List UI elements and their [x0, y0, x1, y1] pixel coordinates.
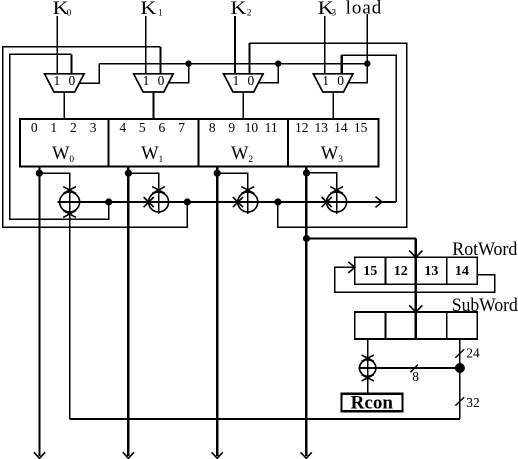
wire K2 input	[234, 16, 236, 74]
slash 32	[455, 397, 464, 405]
wire W2 to xor X2	[217, 173, 248, 192]
svg-text:1: 1	[143, 73, 150, 88]
svg-text:load: load	[346, 0, 383, 18]
wire W0 to xor X0	[39, 173, 69, 192]
wire mux1 zero-input	[159, 47, 161, 74]
junction load-mux2	[275, 60, 281, 66]
xor X3	[322, 187, 347, 215]
wire K1 input	[145, 16, 147, 74]
arrow into SubWord	[409, 305, 422, 312]
svg-text:0: 0	[31, 120, 38, 135]
RotWord cell numbers	[363, 264, 469, 279]
svg-text:0: 0	[158, 73, 165, 88]
arrow W3 out	[301, 452, 312, 458]
svg-text:2: 2	[248, 155, 253, 165]
svg-text:1: 1	[233, 73, 240, 88]
arrow into RotWord left	[348, 262, 355, 273]
label W1	[141, 144, 163, 165]
arrow W2 out	[212, 452, 223, 458]
label W0	[52, 144, 74, 165]
wire W1 output	[127, 166, 129, 456]
wire mux3 zero-input	[341, 55, 343, 74]
mux M3	[313, 73, 353, 92]
wire mux0 output	[63, 92, 65, 119]
RotWord rotate loop wire	[335, 267, 495, 292]
register W3 byte numbers	[295, 120, 368, 135]
wire X4 output to merge	[359, 367, 460, 369]
wire W0 output (to bottom arrow)	[38, 166, 40, 456]
svg-text:14: 14	[455, 264, 469, 279]
svg-text:2: 2	[247, 9, 252, 19]
svg-text:3: 3	[90, 120, 97, 135]
junction load-mux3	[364, 60, 370, 66]
register divider 1	[107, 119, 109, 166]
wire mux0 zero-input	[70, 54, 72, 74]
svg-text:Rcon: Rcon	[351, 392, 394, 413]
svg-text:32: 32	[466, 395, 480, 410]
svg-text:3: 3	[338, 155, 343, 165]
SubWord box	[355, 312, 477, 339]
svg-text:W: W	[52, 144, 70, 164]
svg-text:1: 1	[54, 73, 61, 88]
svg-text:W: W	[231, 144, 249, 164]
label K0	[53, 0, 72, 19]
feedback loop L2 into mux2	[250, 43, 407, 227]
wire mux1 output	[152, 92, 154, 119]
feedback loop L3 into mux3	[342, 55, 397, 202]
svg-text:7: 7	[178, 120, 185, 135]
svg-text:3: 3	[331, 9, 336, 19]
label K3	[318, 0, 337, 19]
wire select mux3	[348, 64, 367, 83]
wire mux2 output	[242, 92, 244, 119]
label K1	[140, 0, 163, 19]
xor X0	[60, 173, 80, 419]
svg-text:12: 12	[295, 120, 309, 135]
wire temp return to X0	[70, 418, 460, 420]
wire load horizontal	[99, 63, 367, 65]
wire K0 input	[56, 16, 58, 74]
svg-text:1: 1	[322, 73, 329, 88]
arrow X3 output	[376, 197, 383, 208]
wire W3 branch to RotWord	[307, 238, 416, 240]
svg-text:9: 9	[228, 120, 235, 135]
svg-text:4: 4	[119, 120, 126, 135]
svg-text:8: 8	[209, 120, 216, 135]
slash 8	[411, 365, 418, 373]
junction temp merge	[455, 363, 465, 373]
svg-text:1: 1	[50, 120, 57, 135]
RotWord box	[355, 257, 477, 284]
svg-text:13: 13	[314, 120, 328, 135]
junction X1 output	[184, 198, 191, 205]
mux M2	[224, 73, 264, 92]
svg-text:13: 13	[424, 264, 438, 279]
svg-text:W: W	[141, 144, 159, 164]
wire RotWord data vertical	[414, 239, 417, 313]
feedback loop L0 into mux0	[10, 54, 109, 219]
register divider 2	[197, 119, 199, 166]
junction W3 tap	[303, 169, 310, 176]
svg-text:0: 0	[337, 73, 344, 88]
svg-text:K: K	[140, 0, 156, 19]
feedback loop L1 into mux1	[3, 47, 188, 228]
junction X0 output	[105, 198, 112, 205]
svg-text:15: 15	[363, 264, 377, 279]
wire W2 output	[216, 166, 218, 456]
wire W3 output	[305, 166, 307, 456]
junction load-mux1	[185, 60, 191, 66]
svg-text:14: 14	[334, 120, 348, 135]
svg-text:2: 2	[70, 120, 77, 135]
mux M1	[134, 73, 174, 92]
label K2	[230, 0, 251, 19]
wire SubWord bytes123 down	[459, 339, 461, 419]
wire mux3 output	[332, 92, 334, 119]
svg-text:10: 10	[245, 120, 259, 135]
svg-text:0: 0	[248, 73, 255, 88]
junction W0 tap	[36, 170, 43, 177]
wire select mux2	[259, 64, 278, 83]
wire W3 to xor X3	[307, 173, 337, 192]
svg-text:6: 6	[159, 120, 166, 135]
arrow into RotWord	[409, 251, 422, 258]
wire select mux1	[169, 64, 189, 83]
svg-text:0: 0	[69, 73, 76, 88]
arrow W0 out	[34, 452, 45, 458]
svg-text:1: 1	[158, 9, 163, 19]
wire mux2 zero-input	[248, 43, 250, 74]
label W3	[321, 144, 343, 165]
svg-text:8: 8	[412, 369, 419, 384]
svg-text:11: 11	[265, 120, 278, 135]
wire W1 to xor X1	[128, 173, 158, 192]
wire K3 input	[324, 16, 326, 74]
svg-text:0: 0	[67, 9, 72, 19]
svg-text:12: 12	[394, 264, 408, 279]
svg-text:W: W	[321, 144, 339, 164]
xor X4 (Rcon xor)	[360, 355, 376, 381]
xor X2	[233, 187, 258, 215]
label W2	[231, 144, 253, 165]
junction W1 tap	[125, 170, 132, 177]
arrow W1 out	[123, 452, 134, 458]
svg-text:24: 24	[466, 345, 480, 360]
wire select mux0	[80, 64, 100, 84]
xor X1	[144, 187, 169, 215]
register file box	[20, 119, 378, 166]
Rcon box	[342, 394, 403, 412]
register W0 byte numbers	[31, 120, 97, 135]
wire load vertical	[366, 14, 368, 63]
svg-text:K: K	[230, 0, 246, 19]
svg-text:1: 1	[159, 155, 164, 165]
mux M0	[45, 73, 85, 92]
junction W2 tap	[214, 170, 221, 177]
register W1 byte numbers	[119, 120, 185, 135]
junction X2 output	[274, 198, 281, 205]
xor chain horizontal wire	[58, 201, 397, 203]
junction W3 to RotWord	[303, 235, 310, 242]
slash 24	[455, 349, 464, 357]
wire SubWord byte0 to xor X4	[367, 339, 369, 394]
register W2 byte numbers	[209, 120, 278, 135]
svg-text:15: 15	[354, 120, 368, 135]
svg-text:0: 0	[69, 155, 74, 165]
svg-text:5: 5	[139, 120, 146, 135]
register divider 3	[287, 119, 289, 166]
